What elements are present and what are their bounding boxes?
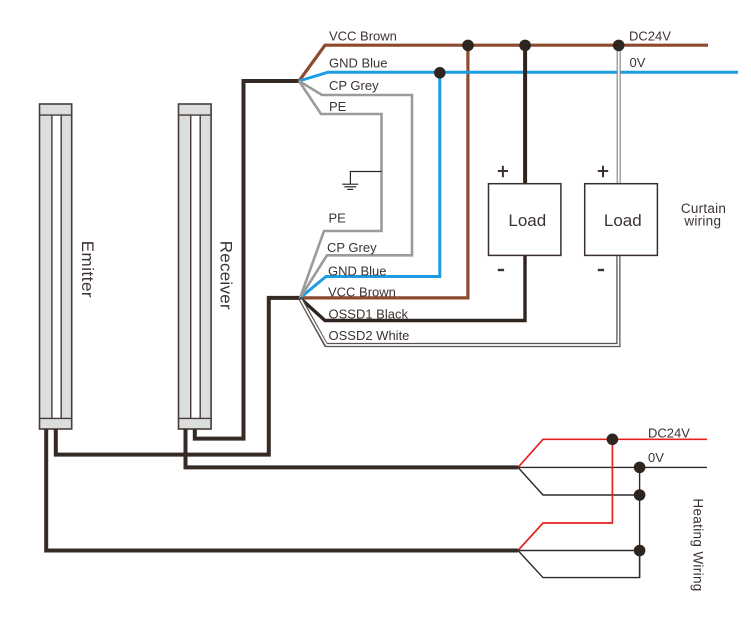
svg-text:Receiver: Receiver	[216, 241, 235, 310]
wire emitter signal cable	[56, 298, 300, 455]
node heating 0V	[634, 462, 646, 474]
wire heating 0V black	[518, 466, 707, 468]
ground	[342, 172, 381, 190]
wire heating lower branch 1	[518, 467, 640, 495]
svg-text:OSSD2 White: OSSD2 White	[329, 328, 410, 343]
node heating red	[607, 434, 619, 446]
wire heating vertical bus	[639, 467, 641, 577]
node heating branch2	[634, 545, 646, 557]
wire VCC Brown top	[299, 45, 708, 81]
label plus load1	[498, 166, 508, 177]
node on VCC at load2	[613, 40, 625, 52]
svg-text:Load: Load	[508, 211, 546, 230]
wire OSSD2 White	[300, 255, 618, 345]
svg-text:0V: 0V	[630, 55, 646, 70]
wire VCC Brown return	[300, 45, 468, 298]
svg-text:VCC Brown: VCC Brown	[329, 29, 397, 44]
label minus load2	[598, 269, 604, 271]
wire GND Blue return	[300, 73, 440, 298]
svg-text:VCC Brown: VCC Brown	[328, 284, 396, 299]
wire OSSD1 Black	[300, 255, 525, 320]
wire heating lower branch 2	[518, 551, 640, 578]
svg-text:OSSD1 Black: OSSD1 Black	[329, 306, 409, 321]
svg-text:DC24V: DC24V	[648, 425, 690, 440]
node heating branch1	[634, 489, 646, 501]
wire receiver heating cable	[186, 429, 519, 467]
svg-text:wiring: wiring	[683, 214, 721, 229]
wire heating DC24V red	[518, 439, 707, 467]
svg-text:0V: 0V	[648, 450, 664, 465]
wire CP Grey loop	[299, 81, 412, 298]
wire load1 top drop	[523, 45, 527, 183]
node on VCC at brown return	[462, 40, 474, 52]
svg-text:GND Blue: GND Blue	[329, 56, 388, 71]
label plus load2	[598, 166, 608, 177]
svg-text:Emitter: Emitter	[78, 241, 97, 298]
svg-text:DC24V: DC24V	[629, 28, 671, 43]
wire heating red return	[518, 439, 612, 550]
svg-text:PE: PE	[329, 99, 347, 114]
wire emitter heating cable	[46, 429, 518, 551]
wire load2 top drop	[617, 45, 621, 183]
wire receiver signal cable	[195, 81, 299, 439]
label minus load1	[498, 269, 504, 271]
wire PE loop	[299, 81, 382, 298]
node on GND at blue return	[434, 67, 446, 79]
svg-text:Heating Wiring: Heating Wiring	[691, 498, 706, 591]
svg-text:CP Grey: CP Grey	[327, 240, 377, 255]
wire GND Blue top	[299, 72, 738, 81]
receiver bar	[179, 104, 212, 429]
load U1	[489, 184, 561, 256]
node on VCC at load1	[519, 40, 531, 52]
wire heating 0V branch 2	[518, 550, 640, 552]
svg-text:GND Blue: GND Blue	[328, 263, 387, 278]
load U2	[585, 184, 658, 256]
svg-text:Load: Load	[604, 211, 642, 230]
svg-text:CP Grey: CP Grey	[329, 78, 379, 93]
emitter bar	[40, 104, 72, 429]
svg-text:PE: PE	[329, 211, 347, 226]
